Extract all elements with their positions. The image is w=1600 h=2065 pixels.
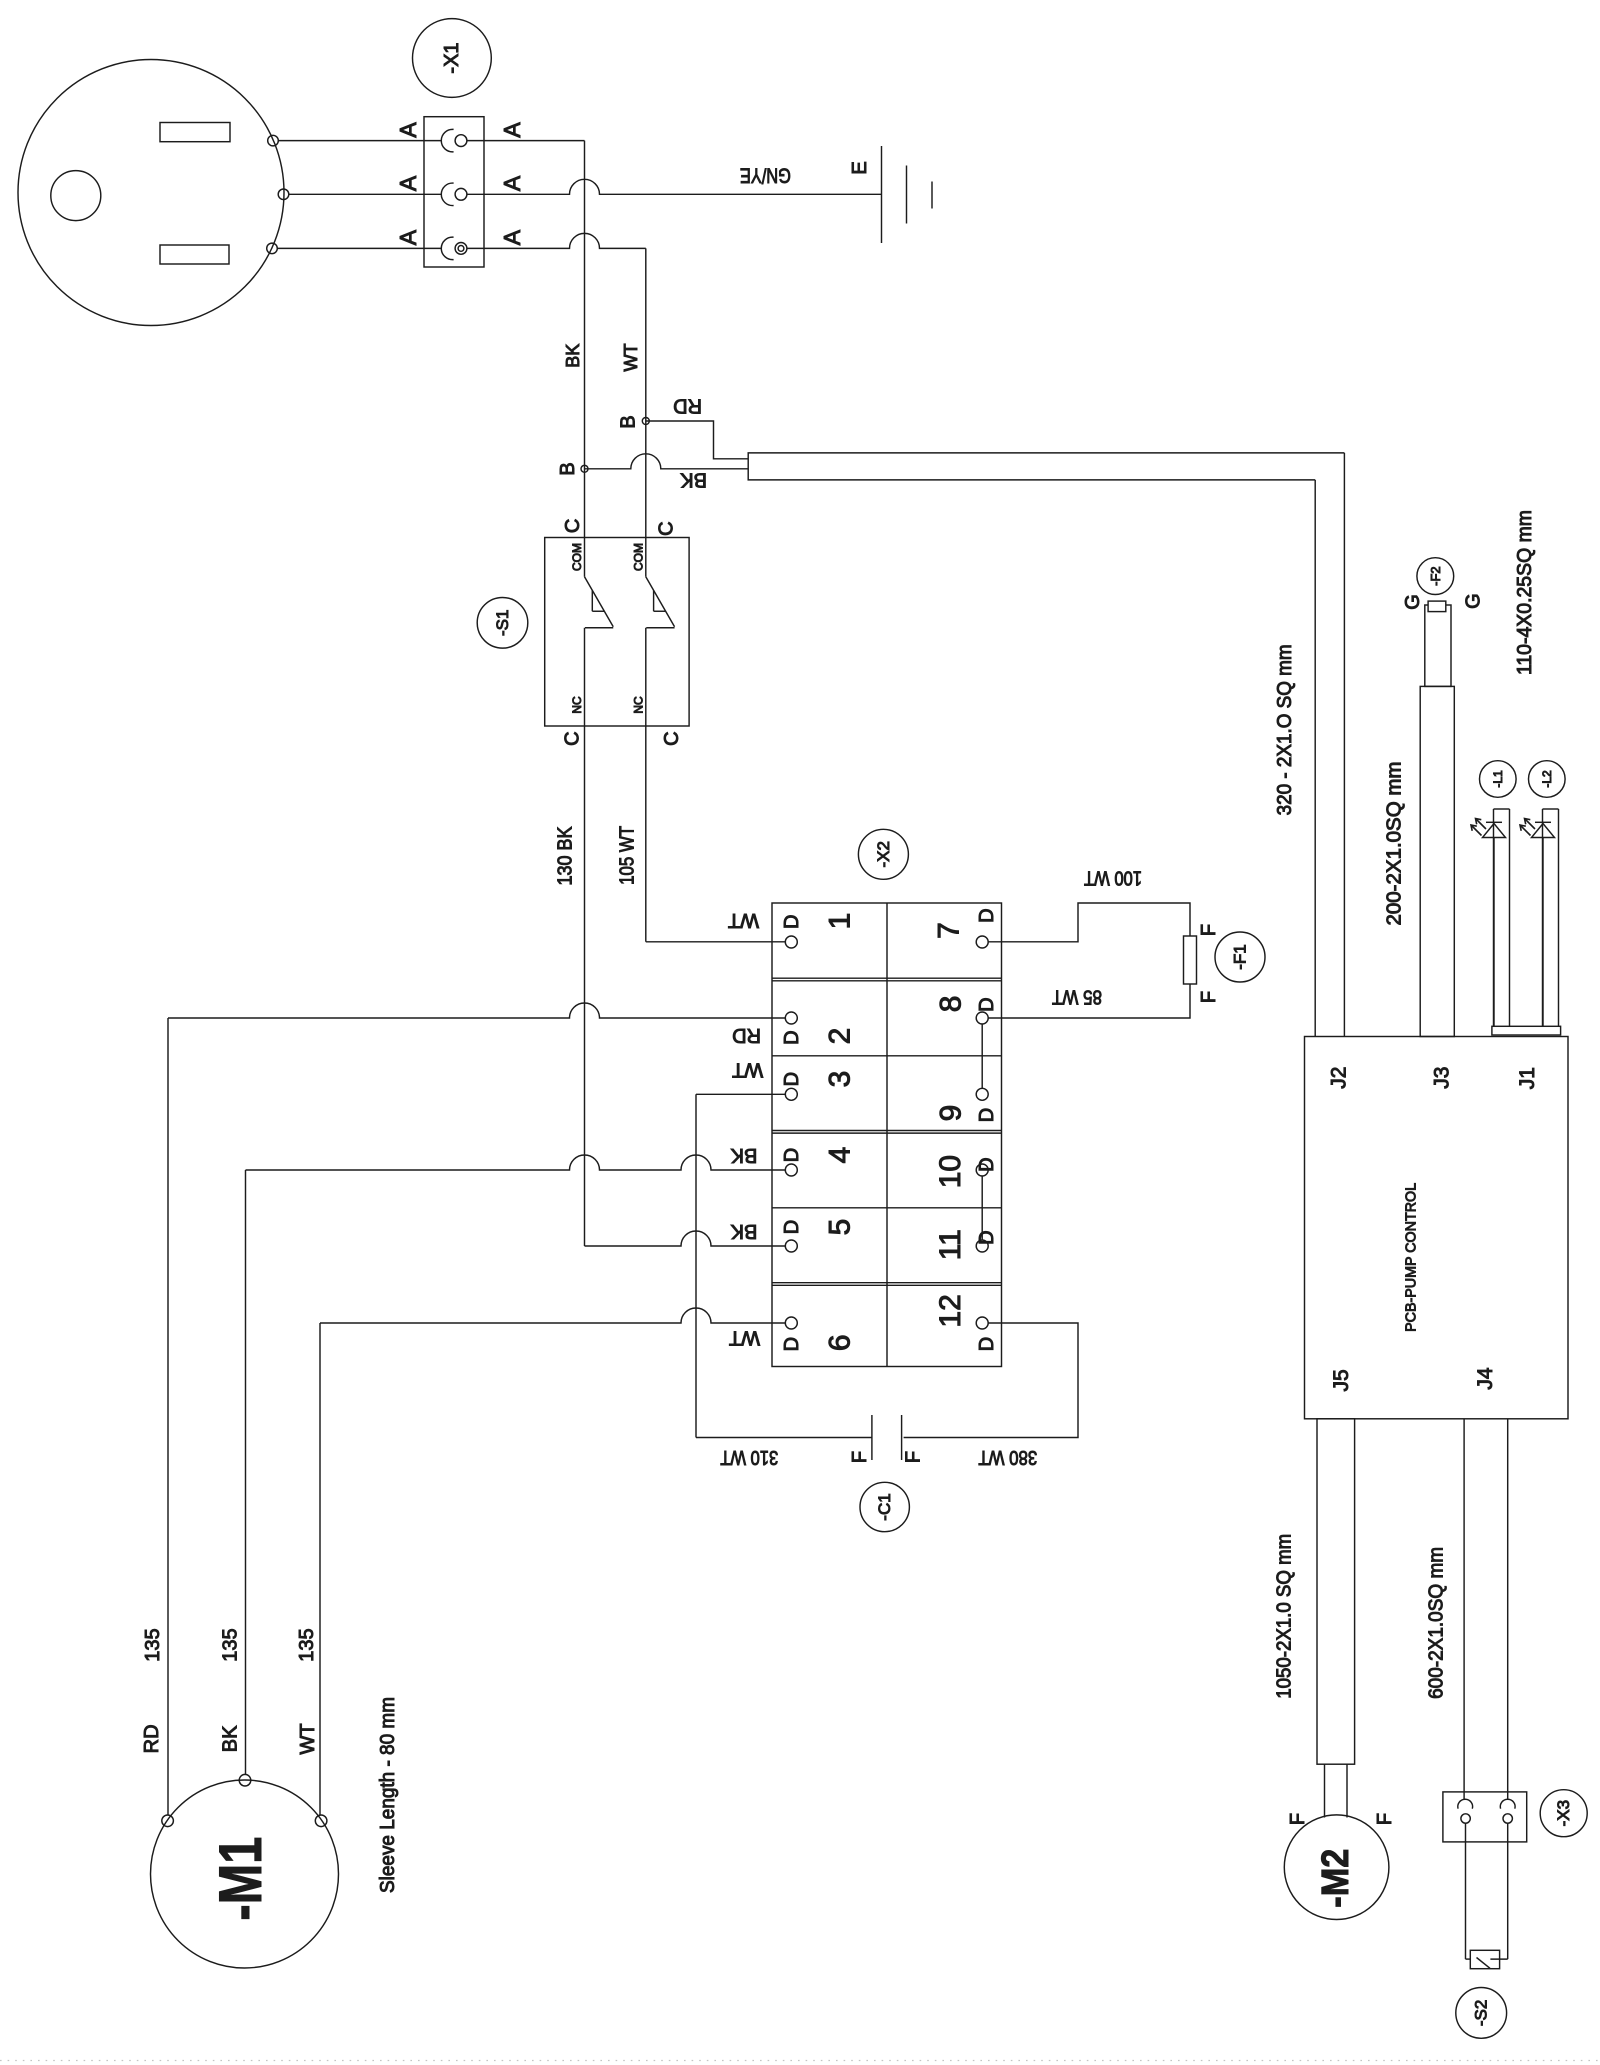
label BK (563, 344, 583, 368)
label 200-2X1.0SQ mm (1384, 762, 1406, 926)
label D at X2-2 (781, 1030, 803, 1044)
svg-text:GN/YE: GN/YE (740, 163, 791, 186)
label -S2 circle (1456, 1988, 1507, 2039)
label -F2 circle (1417, 558, 1454, 595)
X2 separator 3|4 (double) (772, 1131, 1002, 1134)
svg-text:A: A (499, 175, 525, 191)
wire label A (right row1) (499, 122, 525, 138)
label NC pole2 (632, 696, 646, 714)
label X2 terminal number 6 (824, 1334, 857, 1351)
svg-text:C: C (656, 521, 678, 535)
label J3 (1431, 1067, 1454, 1089)
svg-text:D: D (781, 1148, 803, 1162)
label 135 (RD) (142, 1628, 164, 1661)
label J1 (1516, 1067, 1539, 1089)
label PCB-PUMP CONTROL (1403, 1183, 1420, 1332)
wire X2-3 to capacitor branch (696, 1093, 785, 1095)
svg-text:100 WT: 100 WT (1084, 867, 1142, 889)
label D at X2-10 (976, 1157, 998, 1171)
wire X2-12 to capacitor (904, 1323, 1078, 1438)
svg-text:130 BK: 130 BK (554, 826, 576, 886)
label 600-2X1.0SQ mm (1425, 1547, 1447, 1699)
wire WT vertical to M1 (319, 1323, 321, 1815)
capacitor C1 plates (872, 1415, 902, 1460)
wire plug to X1 row A2 (289, 193, 424, 195)
X2 separator 5|6 (double) (772, 1283, 1002, 1286)
terminal X1 pin 2 (424, 183, 484, 205)
svg-text:F: F (849, 1451, 871, 1463)
svg-text:COM: COM (570, 543, 584, 571)
label -X3 circle (1540, 1790, 1587, 1837)
label X2 terminal number 2 (824, 1028, 857, 1045)
svg-text:380 WT: 380 WT (978, 1446, 1037, 1468)
svg-text:-M2: -M2 (1315, 1849, 1357, 1908)
label RD (M1) (141, 1724, 163, 1753)
label X2 terminal number 8 (935, 996, 968, 1013)
wire J4 right to X3 (1507, 1419, 1509, 1800)
cable sleeve 1050 mm to M2 (1317, 1419, 1355, 1764)
svg-text:8: 8 (935, 996, 968, 1013)
svg-text:BK: BK (730, 1220, 757, 1242)
wire J2 pin1 drop (1343, 453, 1345, 1037)
label D at X2-5 (781, 1220, 803, 1234)
svg-text:J5: J5 (1330, 1369, 1353, 1391)
label D at X2-9 (976, 1108, 998, 1122)
svg-text:Sleeve Length - 80 mm: Sleeve Length - 80 mm (377, 1697, 399, 1893)
label 380 WT (978, 1446, 1037, 1468)
svg-text:4: 4 (824, 1147, 857, 1164)
svg-text:RD: RD (732, 1024, 761, 1046)
label X2 terminal number 3 (824, 1071, 857, 1088)
terminal X2-11 circle (976, 1240, 988, 1252)
label J5 (1330, 1369, 1353, 1391)
svg-text:135: 135 (220, 1628, 242, 1661)
label X2 terminal number 4 (824, 1147, 857, 1164)
switch S1 body (545, 538, 689, 727)
label D at X2-8 (976, 997, 998, 1011)
node B on WT line (642, 418, 649, 425)
wire J2 pin2 drop (1314, 480, 1316, 1037)
terminal X2-3 circle (785, 1088, 797, 1100)
terminal X2-6 circle (785, 1317, 797, 1329)
terminal X2-9 circle (976, 1088, 988, 1100)
svg-text:D: D (781, 1030, 803, 1044)
label D at X2-4 (781, 1148, 803, 1162)
wire BK M1 to X2-4 with hops (246, 1155, 786, 1170)
svg-text:PCB-PUMP CONTROL: PCB-PUMP CONTROL (1403, 1183, 1420, 1332)
svg-text:A: A (499, 229, 525, 245)
svg-text:-L2: -L2 (1540, 770, 1554, 788)
svg-text:B: B (618, 415, 640, 428)
switch S1 pole2 blade (646, 577, 675, 628)
plug P1 face (18, 60, 284, 326)
label F (M2 left) (1287, 1813, 1309, 1825)
label B (WT tap) (618, 415, 640, 428)
terminal X3 pin1 (1458, 1799, 1473, 1823)
fuse F2 sleeve wide (1420, 686, 1454, 1036)
wire capacitor to 310 WT branch (696, 1437, 872, 1439)
fuse F1 body (1184, 936, 1197, 984)
terminal block X2 body (772, 903, 1002, 1367)
svg-text:6: 6 (824, 1334, 857, 1351)
svg-text:D: D (781, 1072, 803, 1086)
terminal block X1 body (424, 117, 484, 267)
wire 105 WT (S1 pole2 down) (645, 628, 647, 942)
label -F1 circle (1215, 932, 1265, 982)
wire X3 pin2 to S2 (1490, 1823, 1507, 1959)
wire label A (right row2) (499, 175, 525, 191)
svg-text:7: 7 (933, 922, 966, 939)
svg-text:BK: BK (680, 468, 707, 490)
label -L2 circle (1529, 761, 1566, 798)
svg-text:F: F (1198, 991, 1220, 1003)
svg-text:A: A (395, 122, 421, 138)
svg-text:12: 12 (934, 1294, 967, 1327)
svg-text:C: C (562, 519, 584, 533)
label 310 WT (720, 1446, 778, 1468)
svg-text:-X3: -X3 (1554, 1800, 1573, 1826)
svg-text:C: C (561, 731, 583, 745)
plug terminal pins (267, 135, 289, 253)
wire X1 row2 to ground (GN/YE) with hop (484, 179, 882, 194)
wire WT M1 to X2-6 with hop (320, 1308, 785, 1323)
svg-text:310 WT: 310 WT (720, 1446, 778, 1468)
svg-text:600-2X1.0SQ mm: 600-2X1.0SQ mm (1425, 1547, 1447, 1699)
label 130 BK (554, 826, 576, 886)
LED L2 symbol (1520, 809, 1559, 1026)
label J4 (1474, 1367, 1497, 1390)
terminal X1 pin 3 (earth, double ring) (424, 237, 484, 260)
svg-text:9: 9 (935, 1105, 968, 1122)
label 110-4X0.25SQ mm (1514, 510, 1536, 675)
label X2 terminal number 9 (935, 1105, 968, 1122)
ground symbol E (882, 146, 933, 243)
svg-text:WT: WT (729, 1327, 760, 1349)
wire BK from node B to cable sleeve with hop (585, 454, 749, 469)
svg-text:105 WT: 105 WT (617, 826, 639, 885)
svg-text:G: G (1402, 594, 1424, 610)
svg-text:F: F (1374, 1813, 1396, 1825)
svg-text:D: D (781, 915, 803, 929)
svg-text:RD: RD (141, 1724, 163, 1753)
label -X2 circle (858, 829, 908, 879)
terminal M1 RD (162, 1815, 174, 1827)
label 105 WT (617, 826, 639, 885)
svg-text:NC: NC (570, 696, 584, 714)
label -C1 circle (860, 1482, 909, 1531)
terminal X2-5 circle (785, 1240, 797, 1252)
label C (top pole1) (562, 519, 584, 533)
wire BK to X2-5 with hop (585, 1231, 786, 1246)
label F (C1 right) (903, 1451, 925, 1463)
label WT at X2-3 (732, 1059, 763, 1081)
terminal X2-8 circle (976, 1012, 988, 1024)
svg-text:D: D (781, 1220, 803, 1234)
terminal M1 BK (239, 1774, 251, 1786)
svg-text:BK: BK (220, 1725, 242, 1752)
wire label A (right row3) (499, 229, 525, 245)
wire J4 left to X3 (1463, 1419, 1465, 1800)
label D at X2-12 (976, 1337, 998, 1351)
wire BK vertical to M1 (245, 1170, 247, 1775)
svg-text:BK: BK (730, 1144, 757, 1166)
label F (F1 bottom) (1198, 991, 1220, 1003)
svg-text:D: D (976, 908, 998, 922)
label E (849, 161, 871, 174)
switch S1 pole1 blade (585, 577, 614, 628)
svg-text:A: A (395, 175, 421, 191)
label -S1 circle (477, 598, 528, 649)
terminal X2-1 circle (785, 936, 797, 948)
svg-text:2: 2 (824, 1028, 857, 1045)
svg-text:D: D (976, 997, 998, 1011)
label F (C1 left) (849, 1451, 871, 1463)
wire M2 lead F right (1346, 1764, 1348, 1817)
label WT at X2-1 (728, 909, 759, 931)
svg-text:D: D (976, 1157, 998, 1171)
wire X1 row3 to WT drop with hop (484, 233, 646, 248)
svg-text:J2: J2 (1328, 1067, 1351, 1089)
wire label A (left row3) (395, 229, 421, 245)
wire plug to X1 row A1 (278, 140, 424, 142)
svg-text:WT: WT (732, 1059, 763, 1081)
wire X3 pin1 to S2 (1466, 1823, 1471, 1959)
label BK at X2-4 (730, 1144, 757, 1166)
terminal X2-2 circle (785, 1012, 797, 1024)
label C (bottom pole2) (661, 731, 683, 745)
X2 separator 1|2 (double) (772, 978, 1002, 981)
terminal X2-7 circle (976, 936, 988, 948)
svg-text:G: G (1463, 593, 1485, 609)
label D at X2-7 (976, 908, 998, 922)
X2 separator 2|3 (772, 1055, 1002, 1057)
wire RD vertical to M1 (167, 1018, 169, 1815)
LED connector to J1 (1492, 1026, 1561, 1035)
label G (F2 left) (1402, 594, 1424, 610)
svg-text:F: F (903, 1451, 925, 1463)
label X2 terminal number 11 (934, 1229, 967, 1260)
wire 130 BK (S1 pole1 down) (584, 628, 586, 1246)
jumper X2 8-9 (981, 1024, 983, 1088)
motor M2 (1284, 1815, 1389, 1920)
svg-text:1050-2X1.0 SQ mm: 1050-2X1.0 SQ mm (1273, 1534, 1295, 1699)
svg-text:F: F (1198, 924, 1220, 936)
svg-text:-S1: -S1 (493, 610, 512, 636)
label X2 terminal number 10 (934, 1155, 967, 1188)
svg-text:110-4X0.25SQ mm: 110-4X0.25SQ mm (1514, 510, 1536, 675)
svg-text:D: D (976, 1337, 998, 1351)
label F (F1 top) (1198, 924, 1220, 936)
svg-text:5: 5 (824, 1219, 857, 1236)
wire WT vertical (645, 248, 647, 576)
label F (M2 right) (1374, 1813, 1396, 1825)
wire RD M1 to X2-2 with hop (168, 1003, 785, 1018)
svg-text:-C1: -C1 (875, 1493, 894, 1520)
svg-text:-F2: -F2 (1428, 566, 1443, 586)
label D at X2-3 (781, 1072, 803, 1086)
label COM pole1 (570, 543, 584, 571)
jumper X2 10-11 (981, 1176, 983, 1240)
svg-text:NC: NC (632, 696, 646, 714)
svg-text:11: 11 (934, 1229, 967, 1260)
svg-text:J3: J3 (1431, 1067, 1454, 1089)
fuse F2 sleeve narrow (1425, 605, 1451, 686)
wire RD from node B to cable sleeve (646, 421, 748, 459)
svg-text:D: D (976, 1108, 998, 1122)
label X2 terminal number 12 (934, 1294, 967, 1327)
label G (F2 right) (1463, 593, 1485, 609)
label X2 terminal number 1 (824, 913, 857, 930)
label X2 terminal number 7 (933, 922, 966, 939)
terminal X2-4 circle (785, 1164, 797, 1176)
label NC pole1 (570, 696, 584, 714)
label 135 (WT) (296, 1628, 318, 1661)
terminal X1 pin 1 (424, 129, 484, 152)
wire M2 lead F left (1324, 1764, 1326, 1817)
LED L1 symbol (1471, 809, 1510, 1026)
label WT at X2-6 (729, 1327, 760, 1349)
svg-text:COM: COM (632, 543, 646, 571)
svg-text:-S2: -S2 (1472, 2000, 1491, 2026)
wire 310 WT vertical (695, 1094, 697, 1437)
svg-text:-L1: -L1 (1491, 770, 1505, 788)
label C (top pole2) (656, 521, 678, 535)
svg-text:F: F (1287, 1813, 1309, 1825)
svg-text:-X2: -X2 (874, 841, 893, 867)
label Sleeve Length - 80 mm (377, 1697, 399, 1893)
wire 85 WT from F1 to X2-8 (988, 984, 1190, 1018)
X2 separator 4|5 (772, 1207, 1002, 1209)
svg-text:J1: J1 (1516, 1067, 1539, 1089)
svg-text:D: D (976, 1230, 998, 1244)
page bottom perforation line (0, 2060, 1600, 2062)
label BK at X2-5 (730, 1220, 757, 1242)
label RD at X2-2 (732, 1024, 761, 1046)
terminal X3 pin2 (1500, 1799, 1515, 1823)
label 100 WT (1084, 867, 1142, 889)
svg-text:A: A (499, 122, 525, 138)
label 320 - 2X1.O SQ mm (1274, 644, 1296, 815)
label WT (621, 344, 641, 372)
svg-text:-M1: -M1 (207, 1837, 274, 1921)
wire X1 row1 to BK drop (484, 140, 585, 142)
label J2 (1328, 1067, 1351, 1089)
terminal M1 WT (315, 1815, 327, 1827)
terminal X2-12 circle (976, 1317, 988, 1329)
svg-text:85 WT: 85 WT (1052, 986, 1102, 1008)
label D at X2-11 (976, 1230, 998, 1244)
switch S2 body (1470, 1950, 1499, 1968)
svg-text:3: 3 (824, 1071, 857, 1088)
svg-text:D: D (781, 1337, 803, 1351)
svg-text:WT: WT (297, 1723, 319, 1754)
label X2 terminal number 5 (824, 1219, 857, 1236)
label BK (M1) (220, 1725, 242, 1752)
label WT (M1) (297, 1723, 319, 1754)
cable sleeve 320 mm to J2 (748, 453, 1344, 480)
svg-text:10: 10 (934, 1155, 967, 1188)
label GN/YE (740, 163, 791, 186)
label D at X2-6 (781, 1337, 803, 1351)
svg-text:J4: J4 (1474, 1367, 1497, 1390)
label -X1 circle (413, 19, 492, 98)
wire plug to X1 row A3 (277, 247, 424, 249)
svg-text:WT: WT (728, 909, 759, 931)
connector X3 body (1443, 1792, 1527, 1842)
svg-text:-X1: -X1 (441, 42, 463, 73)
PCB-PUMP CONTROL board (1305, 1037, 1569, 1419)
svg-text:E: E (849, 161, 871, 174)
svg-text:B: B (557, 462, 579, 475)
svg-text:BK: BK (563, 344, 583, 368)
svg-text:A: A (395, 229, 421, 245)
label BK (cable) (680, 468, 707, 490)
svg-text:320 - 2X1.O SQ mm: 320 - 2X1.O SQ mm (1274, 644, 1296, 815)
wire label A (left row2) (395, 175, 421, 191)
svg-text:RD: RD (673, 394, 702, 416)
svg-text:1: 1 (824, 913, 857, 930)
label C (bottom pole1) (561, 731, 583, 745)
fuse F2 body (1428, 601, 1446, 612)
label 85 WT (1052, 986, 1102, 1008)
label 1050-2X1.0 SQ mm (1273, 1534, 1295, 1699)
node B on BK line (581, 465, 588, 472)
svg-text:135: 135 (142, 1628, 164, 1661)
svg-text:-F1: -F1 (1231, 944, 1250, 970)
label 135 (BK) (220, 1628, 242, 1661)
label B (BK tap) (557, 462, 579, 475)
label -L1 circle (1480, 761, 1517, 798)
terminal X2-10 circle (976, 1164, 988, 1176)
motor M1 (151, 1780, 339, 1968)
svg-text:C: C (661, 731, 683, 745)
svg-text:135: 135 (296, 1628, 318, 1661)
label D at X2-1 (781, 915, 803, 929)
svg-text:200-2X1.0SQ mm: 200-2X1.0SQ mm (1384, 762, 1406, 926)
label COM pole2 (632, 543, 646, 571)
svg-text:WT: WT (621, 344, 641, 372)
label RD (cable) (673, 394, 702, 416)
wire label A (left row1) (395, 122, 421, 138)
wire BK vertical (plug hot) (584, 141, 586, 577)
wire WT to X2-1 (646, 941, 786, 943)
wire 100 WT from X2-7 to F1 (988, 903, 1190, 942)
